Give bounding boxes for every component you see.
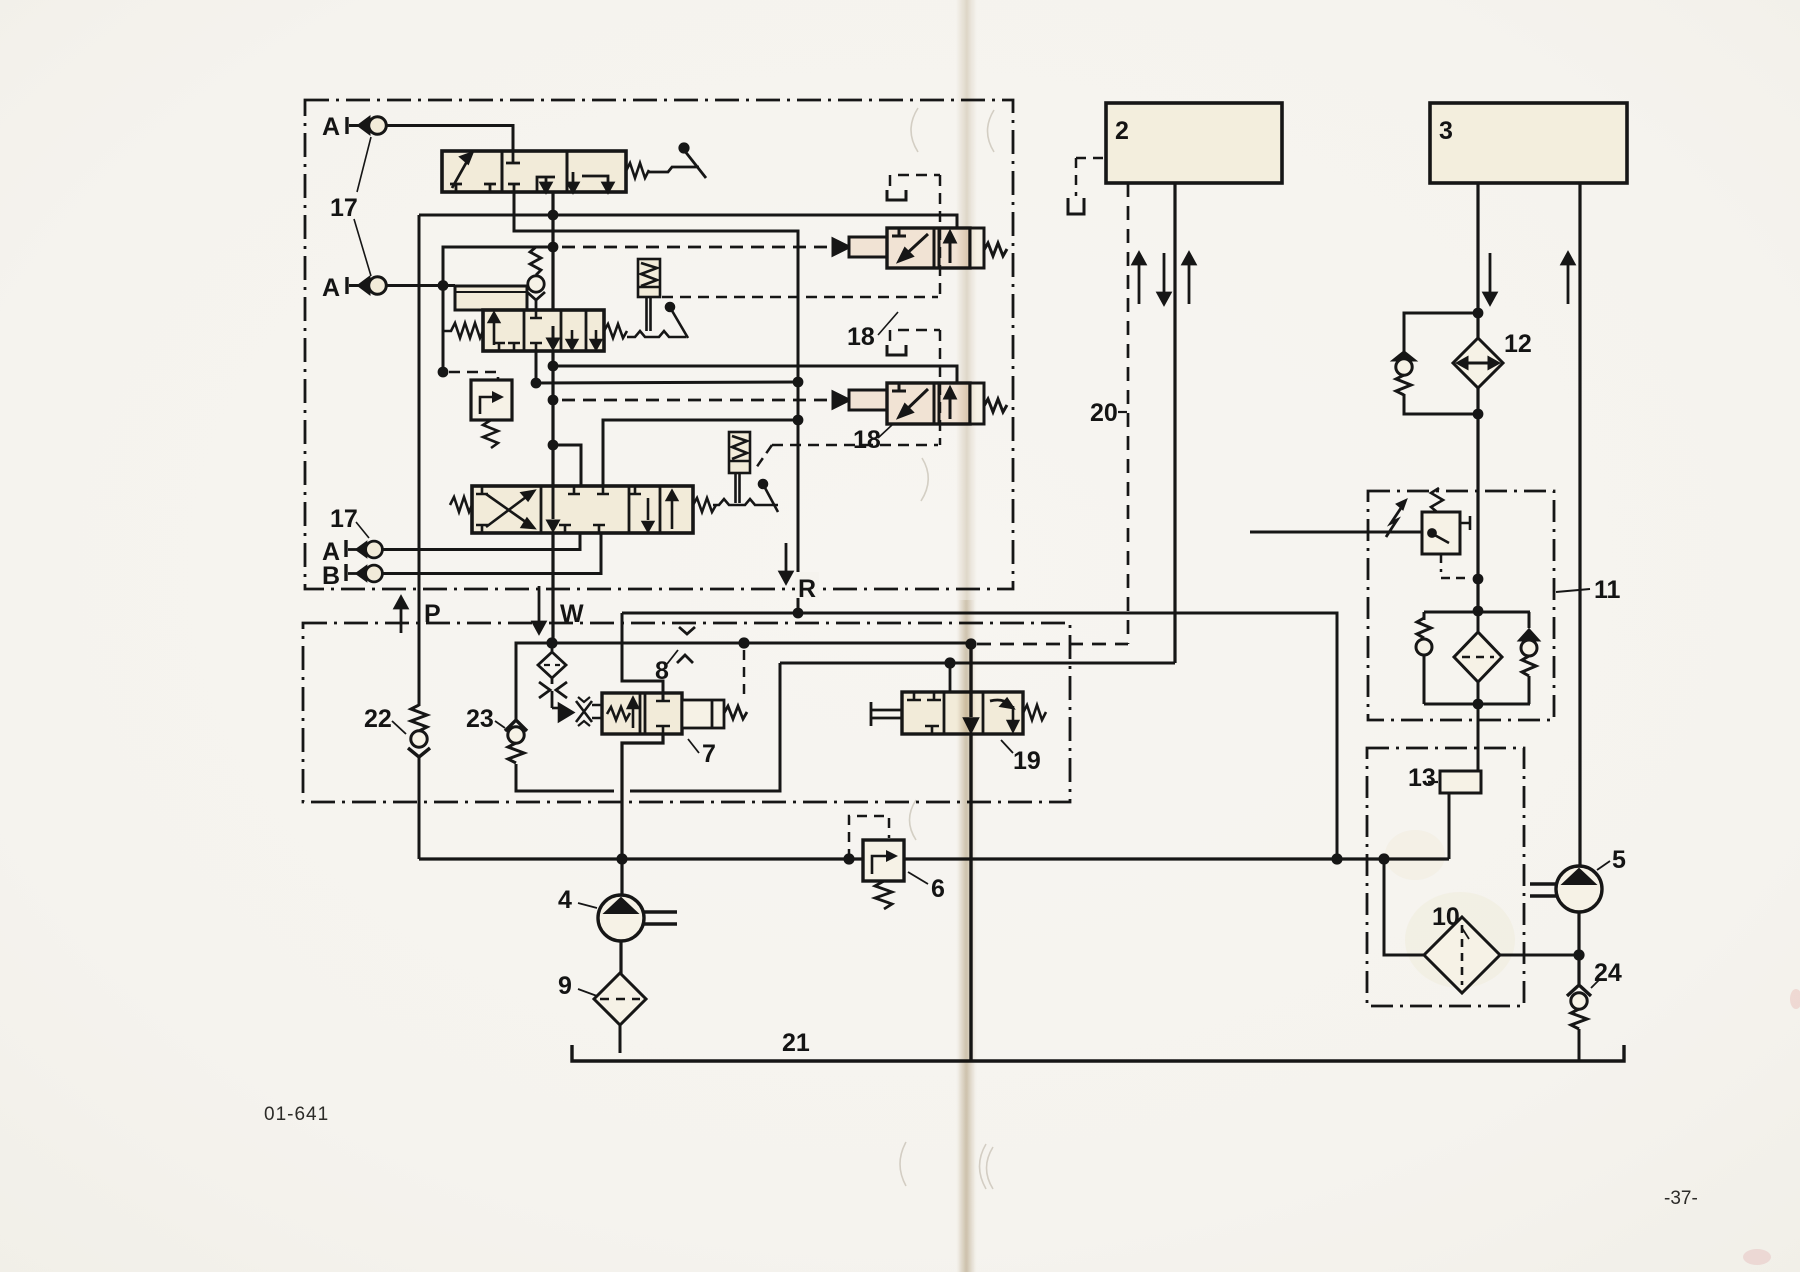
junction node [944, 657, 955, 668]
wire valve15 bottom port [535, 351, 538, 383]
dashed wire node to line 20 [977, 643, 1128, 646]
junction node [438, 367, 449, 378]
junction node [1473, 308, 1484, 319]
svg-text:17: 17 [330, 505, 358, 533]
solenoid valve 18 (upper) [833, 228, 1007, 268]
svg-text:6: 6 [931, 875, 945, 903]
component box 3 [1430, 103, 1627, 183]
svg-text:23: 23 [466, 705, 494, 733]
svg-text:11: 11 [1594, 576, 1621, 604]
wire main riser 15 to 16 [551, 351, 554, 486]
component 12 bypass check valve [1394, 313, 1478, 414]
check valve 23 [505, 720, 527, 763]
wire box 3 right port down (return) [1578, 183, 1581, 866]
svg-text:13: 13 [1408, 764, 1436, 792]
component 12 flow meter [1453, 338, 1503, 388]
svg-text:A: A [322, 274, 340, 302]
svg-text:5: 5 [1612, 846, 1626, 874]
svg-text:12: 12 [1504, 330, 1532, 358]
valve 15 upper sub-block [455, 286, 527, 310]
junction node [616, 853, 627, 864]
wire L3 valve 16 top port to R line [603, 420, 798, 486]
wire 19 down to tank [969, 734, 972, 1061]
junction node [1473, 699, 1484, 710]
junction node [548, 242, 559, 253]
wire valve 7 pilot top [622, 613, 663, 701]
check valve above valve 15 (spring and ball) [527, 247, 545, 310]
valve 15 body [483, 310, 604, 351]
valve 19 spring [1023, 705, 1046, 720]
check valve 22 (P line) [408, 215, 430, 859]
svg-text:P: P [424, 600, 441, 628]
component 13 [1440, 771, 1481, 859]
junction node [965, 638, 976, 649]
filter 9 [594, 973, 646, 1053]
valve 18 lower dashed pilot enclosure [756, 330, 940, 468]
wire main riser 16 down to W [551, 533, 554, 643]
wire R line to main wire [622, 613, 1337, 859]
enclosure box (lower valve group) dash-dot border [303, 623, 1070, 802]
leader line [878, 425, 892, 438]
junction node [548, 440, 559, 451]
valve 16 right spring and pedal [693, 480, 778, 512]
svg-text:17: 17 [330, 194, 358, 222]
wire drain loop left (check 23 branch) [516, 643, 780, 791]
wire L1 pilot to valve 18 lower [553, 366, 964, 396]
junction node [1473, 606, 1484, 617]
flow divider assembly (in 11) [1416, 612, 1538, 704]
wire pump 5 to check 24 [1577, 912, 1580, 984]
junction node [843, 853, 854, 864]
main pressure wire (pump line) [419, 857, 1449, 860]
svg-text:19: 19 [1013, 747, 1041, 775]
junction node [548, 361, 559, 372]
svg-text:W: W [560, 600, 584, 628]
relief valve 6 [863, 840, 904, 881]
check valve 17 (top A) [349, 117, 386, 135]
wire from A2 into valve 15 group [387, 284, 456, 287]
relief valve spring [483, 420, 498, 448]
wire pilot to valve 18 upper [553, 215, 964, 240]
wire loop over valve 15 [443, 247, 553, 286]
pump 4 [598, 895, 677, 941]
svg-text:01-641: 01-641 [264, 1104, 329, 1125]
valve 14 cell symbols [450, 151, 613, 192]
svg-text:3: 3 [1439, 117, 1453, 145]
svg-text:4: 4 [558, 886, 572, 914]
component box 2 [1106, 103, 1282, 183]
valve 15 main line arrow [548, 326, 558, 348]
wire box 3 left port down [1476, 183, 1479, 611]
dashed line 20 from box 2 [1127, 183, 1130, 644]
check valve 17 (middle A) [349, 277, 386, 295]
junction node [438, 280, 449, 291]
wire drain U below valve 14 [514, 192, 553, 231]
svg-text:B: B [322, 562, 340, 590]
flow control valve 7 [602, 693, 682, 734]
svg-text:24: 24 [1594, 959, 1622, 987]
check valve 17 (port B) [348, 565, 382, 582]
wire R feed [553, 231, 798, 613]
pilot relief valve (valve 15 group) [471, 380, 512, 420]
leader line [878, 312, 898, 335]
junction node [1573, 949, 1584, 960]
svg-text:R: R [798, 575, 816, 603]
relief 6 spring [875, 881, 892, 909]
leader line of lower 17 [356, 522, 369, 538]
check valve 17 (bottom A) [348, 541, 382, 558]
junction node [531, 378, 542, 389]
valve 16 body [472, 486, 693, 533]
wire W junction area [546, 637, 557, 648]
valve 19 main line with arrow [965, 644, 977, 731]
wire A3 to valve 16 [383, 533, 581, 550]
junction node [793, 608, 804, 619]
wire box 2 right port down to lower group [1173, 183, 1176, 663]
throttle check assembly (valve 7 pilot) [552, 697, 602, 726]
check valve 24 [1567, 985, 1591, 1061]
valve 15 cell symbols [489, 310, 601, 351]
filter 10 [1384, 859, 1579, 993]
port A top tick [345, 117, 348, 134]
valve 18 upper dashed pilot enclosure [662, 175, 940, 297]
wire main riser below valve 14 [551, 192, 554, 310]
svg-text:18: 18 [853, 426, 881, 454]
svg-text:A: A [322, 113, 340, 141]
wire divider to component 13 [1477, 704, 1480, 782]
relief 6 dashed pilot [849, 816, 889, 859]
valve 19 cell symbols [907, 692, 1018, 734]
wire pilot dashed to solenoid 18 upper [562, 246, 831, 249]
junction node [738, 637, 749, 648]
junction node [793, 415, 804, 426]
valve 19 pilot drop [943, 663, 957, 701]
svg-text:-37-: -37- [1664, 1188, 1698, 1209]
wire coupling 8 line [552, 642, 971, 645]
wire port bridge above valve 16 [553, 445, 581, 486]
valve 19 body [902, 692, 1023, 734]
wire valve 7 bottom to pump 4 [622, 734, 663, 896]
valve 19 pilot wire [780, 662, 1175, 665]
valve 14 spring [626, 163, 649, 178]
valve 15 right spring and pedal [604, 303, 688, 338]
junction node [1378, 853, 1389, 864]
flow arrows on box 3 lines [1484, 253, 1574, 304]
inner dash-dot enclosure (reservoir unit) [1367, 748, 1524, 1006]
svg-text:20: 20 [1090, 399, 1118, 427]
label R with flow arrow [795, 572, 819, 598]
dashed pilot below compensator [1441, 554, 1470, 578]
junction node [548, 210, 559, 221]
wire pump 4 to filter 9 [619, 941, 622, 974]
wire A2 branch down [442, 286, 445, 373]
svg-text:9: 9 [558, 972, 572, 1000]
pump 5 [1530, 866, 1602, 912]
junction node [1331, 853, 1342, 864]
wire B to valve 16 [383, 533, 602, 574]
svg-text:7: 7 [702, 740, 716, 768]
valve 19 plunger actuator [871, 702, 902, 726]
valve 15 plunger actuator [638, 259, 660, 331]
svg-text:18: 18 [847, 323, 875, 351]
wire from A to valve 14 [387, 126, 521, 164]
filter (valve 7 inlet) [538, 643, 567, 708]
valve 16 main line arrow [548, 486, 558, 530]
valve 14 hand lever [649, 144, 706, 178]
valve 16 left spring [450, 497, 472, 512]
svg-text:22: 22 [364, 705, 392, 733]
valve 7 piston and spring [682, 700, 747, 728]
valve 14 body [442, 151, 626, 192]
svg-text:21: 21 [782, 1029, 810, 1057]
pressure compensator valve (in 11) [1250, 488, 1470, 554]
tank line 21 [572, 1045, 1624, 1061]
component 11 dash-dot enclosure [1368, 491, 1554, 720]
leader lines of label 17 [354, 137, 371, 276]
svg-text:2: 2 [1115, 117, 1129, 145]
flow arrows between box 2 lines [1133, 253, 1195, 304]
coupling 8 symbol [677, 627, 695, 663]
dashed pilot to solenoid 18 lower [562, 399, 831, 402]
port B tick [344, 564, 347, 581]
valve 15 left spring [443, 323, 483, 338]
valve 16 cell symbols [476, 486, 677, 533]
solenoid valve 18 (lower) [833, 383, 1007, 424]
wire L2 to R line [536, 382, 798, 383]
junction node [548, 395, 559, 406]
valve 16 plunger actuator [729, 432, 750, 503]
junction node [1473, 574, 1484, 585]
wire P from valve 14 to P line [419, 192, 553, 215]
port A middle tick [345, 277, 348, 294]
dashed pilot from node to valve 7 [743, 650, 746, 700]
dashed pilot stub on box 2 [1068, 158, 1104, 214]
svg-text:10: 10 [1432, 903, 1460, 931]
junction node [793, 377, 804, 388]
enclosure box (valve block) dash-dot border [305, 100, 1013, 589]
dashed pilot to relief valve [449, 372, 498, 380]
port A bottom tick [344, 540, 347, 557]
junction node [1473, 409, 1484, 420]
